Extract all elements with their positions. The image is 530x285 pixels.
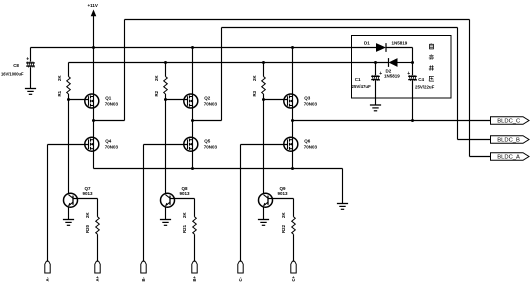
svg-text:25V/47uF: 25V/47uF (352, 84, 372, 89)
svg-text:+: + (379, 71, 382, 77)
svg-text:R2: R2 (154, 90, 159, 96)
svg-text:2K: 2K (57, 75, 62, 81)
svg-text:70N03: 70N03 (304, 102, 318, 107)
svg-text:16V/1000uF: 16V/1000uF (1, 72, 24, 77)
svg-text:BLDC_C: BLDC_C (497, 119, 520, 125)
svg-text:2K: 2K (154, 75, 159, 81)
svg-text:R21: R21 (182, 224, 187, 233)
svg-text:Q2: Q2 (204, 96, 211, 101)
svg-text:R22: R22 (281, 224, 286, 233)
svg-text:A-: A- (45, 276, 50, 281)
svg-text:A+: A+ (95, 275, 100, 281)
svg-text:1N5819: 1N5819 (384, 73, 400, 78)
svg-text:9013: 9013 (83, 191, 94, 196)
svg-text:C4: C4 (418, 77, 424, 82)
svg-text:+: + (26, 57, 29, 63)
svg-text:9013: 9013 (180, 191, 191, 196)
svg-text:Q1: Q1 (105, 96, 112, 101)
svg-text:25V/22uF: 25V/22uF (415, 85, 435, 90)
svg-text:Q3: Q3 (304, 96, 311, 101)
svg-text:Q5: Q5 (204, 139, 211, 144)
svg-text:70N03: 70N03 (105, 145, 119, 150)
svg-text:70N03: 70N03 (105, 102, 119, 107)
svg-text:BLDC_A: BLDC_A (497, 155, 520, 161)
svg-text:2K: 2K (182, 212, 187, 218)
svg-text:BLDC_B: BLDC_B (497, 138, 520, 144)
svg-text:R20: R20 (85, 224, 90, 233)
svg-text:70N03: 70N03 (204, 145, 218, 150)
svg-text:+: + (407, 71, 410, 77)
svg-text:C1: C1 (355, 77, 361, 82)
svg-text:Q4: Q4 (105, 139, 112, 144)
svg-text:Q6: Q6 (304, 139, 311, 144)
svg-text:70N03: 70N03 (304, 145, 318, 150)
svg-text:R3: R3 (252, 90, 257, 96)
svg-text:D1: D1 (364, 41, 370, 46)
svg-text:C-: C- (238, 276, 243, 281)
svg-text:9013: 9013 (278, 191, 289, 196)
svg-text:2K: 2K (252, 75, 257, 81)
svg-text:2K: 2K (281, 212, 286, 218)
svg-text:B-: B- (141, 276, 146, 281)
svg-text:2K: 2K (85, 212, 90, 218)
svg-text:70N03: 70N03 (204, 102, 218, 107)
svg-text:1N5819: 1N5819 (392, 41, 408, 46)
svg-text:+11V: +11V (88, 3, 98, 8)
svg-text:C+: C+ (291, 275, 296, 281)
svg-text:B+: B+ (192, 275, 197, 281)
svg-text:R1: R1 (57, 90, 62, 96)
svg-text:C8: C8 (13, 63, 19, 68)
